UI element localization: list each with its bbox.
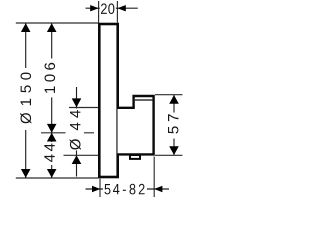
- dimension line 57: [173, 95, 175, 155]
- arrow D150 top: [21, 23, 31, 32]
- arrow D44 bottom: [72, 155, 82, 164]
- arrow 54-82 left: [92, 186, 100, 193]
- arrow D44 top: [72, 98, 82, 107]
- arrow 54-82 right: [154, 186, 162, 193]
- handle button seam: [135, 99, 153, 101]
- extension line handle bottom right: [155, 154, 183, 156]
- arrow D150 bottom: [21, 169, 31, 178]
- extension line plate top left: [16, 22, 99, 24]
- extension line plate bottom left: [16, 177, 99, 179]
- arrow 106 top: [47, 23, 57, 32]
- plate (side view): [99, 24, 117, 177]
- label 54-82: [105, 184, 145, 195]
- handle outline: [118, 96, 154, 154]
- arrow 44 bottom: [47, 169, 57, 178]
- arrow 57 top: [169, 95, 179, 104]
- arrow 57 bottom: [169, 146, 179, 155]
- label D150: [20, 73, 31, 124]
- extension line handle top right: [155, 94, 183, 96]
- label D44: [70, 110, 81, 150]
- dimension line 54-82: [86, 188, 170, 190]
- dimension line D44: [76, 87, 78, 177]
- label 20: [101, 3, 114, 14]
- arrow 44 top: [47, 133, 57, 142]
- text whiteouts: [19, 68, 33, 130]
- arrow 20 right: [117, 5, 125, 11]
- extension line 54-82 left: [99, 179, 101, 198]
- label 106: [45, 63, 56, 93]
- label 44: [44, 144, 54, 163]
- handle bottom tab: [130, 155, 140, 159]
- dimension line 20: [86, 7, 138, 9]
- extension line handle bottom left: [64, 154, 99, 156]
- extension line 54-82 right: [153, 157, 155, 198]
- extension line (20 left): [98, 1, 100, 23]
- arrow 20 left: [90, 5, 98, 11]
- arrow 106 bottom: [47, 124, 57, 133]
- dimension line 106 and 44: [51, 23, 53, 178]
- extension line (20 right): [116, 1, 118, 23]
- extension line handle top left: [69, 107, 98, 109]
- dimension line D150: [25, 23, 27, 178]
- extension line handle centre: [41, 132, 94, 134]
- label 57: [168, 114, 178, 133]
